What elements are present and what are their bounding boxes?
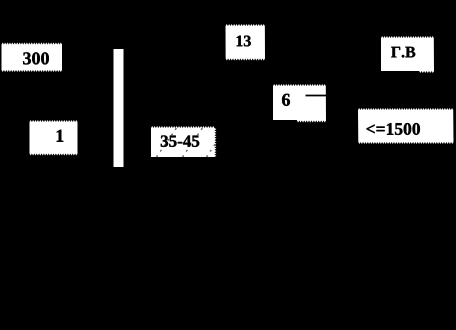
vertical bar — [114, 49, 124, 167]
box "13" — [226, 24, 266, 61]
box "300" — [2, 43, 63, 73]
box "1" — [30, 120, 78, 156]
box "6" — [273, 84, 327, 123]
box "35-45" — [151, 126, 218, 157]
box "<=1500" — [358, 108, 454, 144]
box "G.V" — [381, 36, 434, 73]
